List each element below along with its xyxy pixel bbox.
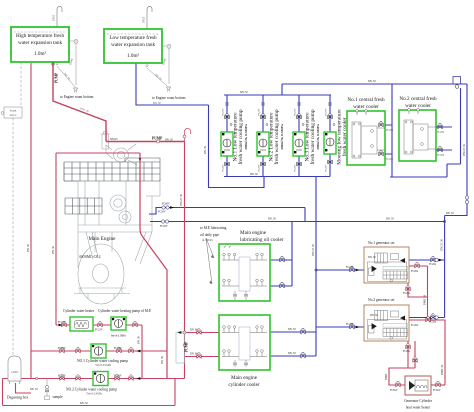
svg-text:device: device [10,114,18,117]
wire: lube cooler collector [291,222,293,287]
svg-text:FC25V: FC25V [58,375,66,378]
svg-text:to Engine room bottom: to Engine room bottom [60,95,94,99]
svg-text:DN125. 50: DN125. 50 [180,194,183,206]
svg-text:200m³/h, 0.3MPa: 200m³/h, 0.3MPa [244,124,248,150]
No.1 LT cooling pump [221,132,233,156]
svg-text:Main Engine: Main Engine [89,236,117,242]
wire: LT distribution riser [315,177,317,357]
wire: genset2 bottom leg left [407,341,409,368]
No.1 generator set [364,241,409,283]
svg-text:FC200: FC200 [386,129,394,132]
wire: engine outlet line lower to genset supply [150,221,445,223]
wire: cooler2 right drop [460,88,462,164]
svg-text:Alarm: Alarm [10,110,17,113]
vertical pump labels [233,109,349,165]
svg-text:FC26x: FC26x [429,321,437,324]
No.2 central fresh water cooler [399,95,452,161]
svg-text:FC26x: FC26x [403,350,411,353]
wire: bus step up [281,84,283,95]
wire: heater row [56,324,142,326]
Mooring LT cooler unit [324,132,336,154]
svg-text:PUMP: PUMP [185,341,189,352]
tiny DN labels [27,72,466,405]
wire: no1 pump branch [226,95,228,177]
wire: lube cooler outlet bottom [270,285,292,287]
NO.1 cylinder water cooling pump [77,344,128,367]
svg-text:FC23V: FC23V [58,347,66,350]
svg-text:1.00m³: 1.00m³ [11,371,19,374]
svg-text:FC22V: FC22V [95,329,103,332]
svg-text:DN. 50: DN. 50 [27,243,30,251]
svg-text:DN. 50: DN. 50 [250,173,258,176]
svg-text:DN. 50: DN. 50 [80,402,88,405]
No.2 generator set [364,298,409,341]
svg-text:No.2 generator set: No.2 generator set [368,298,394,302]
wire: degassing tank U loop [16,383,32,393]
air cooler grid (scavenge) [64,158,160,181]
svg-text:DN. 50: DN. 50 [153,102,161,105]
lower small grid [65,198,102,214]
wire: cooler2 drain leg [447,164,461,177]
svg-text:1.0m³: 1.0m³ [127,53,140,59]
wire: heater return drop [141,325,143,379]
turbocharger [114,148,129,162]
wire: cyl cooler feed bottom [185,356,220,358]
svg-text:DN. 50: DN. 50 [386,218,394,221]
svg-text:fresh water cooling pump: fresh water cooling pump [309,109,316,165]
wire: HT tank vent pipe with gooseneck [57,7,62,28]
wire: degassing bottom row [3,405,176,407]
svg-text:FO20V: FO20V [162,203,170,206]
No.3 LT cooling pump [293,132,305,156]
svg-text:FC20V: FC20V [160,225,168,228]
wire: upper distribution bus [282,83,467,85]
engine outline [78,178,160,268]
wire: HT tank left drop [30,63,32,379]
svg-text:DN65. 50: DN65. 50 [424,294,427,305]
wire: HT tank drain valve line [69,41,76,85]
Cylinder water heating pump of M.E [98,309,152,330]
wire: mooring cooler branch [329,95,331,177]
svg-text:fresh water cooling pump: fresh water cooling pump [237,109,244,165]
wire: genset jacket riser [427,266,429,320]
header distributor rect [176,332,185,363]
svg-text:DN. 50: DN. 50 [288,328,296,331]
svg-text:NO.2 Cylinder water cooling pu: NO.2 Cylinder water cooling pump [66,388,117,392]
wire: genset2 jacket out [409,320,445,322]
NO.2 cylinder water cooling pump [66,372,117,396]
svg-text:FC65V: FC65V [390,389,398,392]
funnel under HT overflow [74,88,78,93]
svg-text:DN. 50: DN. 50 [204,145,207,153]
wire: engine inlet drop left [55,153,57,325]
HT expansion tank [11,27,69,62]
wire: HT tank overflow diagonal to funnel [57,66,75,87]
wire: right edge drop [445,84,467,216]
svg-text:FC26V: FC26V [114,375,122,378]
svg-text:DN. 50: DN. 50 [268,218,276,221]
svg-text:DN65: DN65 [385,373,388,380]
svg-text:FC22V: FC22V [222,164,225,171]
svg-text:70m³/h 0.4MPa: 70m³/h 0.4MPa [86,393,103,396]
svg-text:FC21V: FC21V [222,108,225,115]
svg-text:Degassing box: Degassing box [7,396,28,400]
flow arrows [59,324,63,327]
wire: pump discharge bus [224,94,331,96]
svg-text:water cooler: water cooler [353,104,379,110]
svg-text:DN. 90: DN. 90 [190,353,198,356]
wire: genset1 bottom leg [408,283,428,297]
svg-text:DN25: DN25 [143,16,146,23]
svg-text:DN. 90: DN. 90 [190,329,198,332]
wire: engine outlet line upper [149,208,305,222]
pump fittings: valves above/below each pump [225,103,335,166]
svg-text:to M.E lubricating: to M.E lubricating [200,226,227,230]
svg-text:200m³/h, 0.3MPa: 200m³/h, 0.3MPa [280,124,284,150]
wire: LT tank vent pipe with gooseneck [147,7,152,30]
svg-text:FC20V: FC20V [158,211,166,214]
wire: cylinder cooler outlet bottom [270,355,316,357]
wire: no2 pump branch [262,95,264,177]
svg-text:FC24V: FC24V [114,347,122,350]
wire: LT tank overflow diagonal to funnel [147,68,167,86]
svg-text:DN. 50: DN. 50 [240,91,248,94]
svg-text:DN. 50: DN. 50 [52,245,55,253]
wire: genset2 return [409,317,445,319]
svg-text:8m³/h 0.5MPa: 8m³/h 0.5MPa [111,335,127,338]
svg-text:water expansion tank: water expansion tank [111,42,155,48]
wire: cylinder cooler outlet top [270,331,316,333]
svg-text:DN125: DN125 [110,138,118,141]
svg-text:Main engine: Main engine [240,230,267,236]
svg-text:FC22V: FC22V [325,164,328,171]
svg-text:DN. 50: DN. 50 [30,388,38,391]
svg-text:High temperature fresh: High temperature fresh [16,32,65,39]
svg-text:DN125. 50: DN125. 50 [312,244,315,256]
svg-text:FC26x: FC26x [346,266,354,269]
svg-text:DN125. 50: DN125. 50 [441,239,444,251]
valves blue side [301,328,305,333]
svg-text:6S50MC-C8.2: 6S50MC-C8.2 [79,255,100,259]
svg-text:DN65. 50: DN65. 50 [441,364,444,375]
svg-text:NO.1 Cylinder water cooling pu: NO.1 Cylinder water cooling pump [77,359,128,363]
svg-text:oil daily pipe: oil daily pipe [200,233,219,237]
svg-text:FC21V: FC21V [294,108,297,115]
svg-text:70m³/h 0.4MPa: 70m³/h 0.4MPa [95,364,112,367]
flywheel big oval body [78,244,124,304]
svg-text:No.1 generator set: No.1 generator set [368,241,394,245]
svg-text:Cylinder water heating pump of: Cylinder water heating pump of M.E [98,309,152,313]
svg-text:FC21V: FC21V [325,108,328,115]
small circles [110,195,126,211]
wire: cyl cooler feed top [185,332,220,334]
vent loop top right [453,77,461,85]
svg-text:FC65V: FC65V [433,389,441,392]
svg-text:Cylinder water heater: Cylinder water heater [63,309,95,313]
wire: genset2 supply [316,326,364,328]
svg-text:cylinder cooler: cylinder cooler [228,382,260,388]
wire: HT tank drain to engine room bottom [53,62,106,142]
svg-text:DN125. 50: DN125. 50 [463,144,466,156]
wire: lube cooler outlet top [270,259,292,261]
svg-text:water cooler: water cooler [405,103,431,109]
wire: bottom right leg [174,379,176,406]
wire: no3 pump branch [298,95,300,177]
svg-text:No.2 central fresh: No.2 central fresh [399,95,437,102]
svg-text:DN. 50: DN. 50 [370,314,378,317]
Generator cylinder heat water heater [404,376,433,410]
wire: degassing left leg [2,379,4,406]
svg-text:fresh water cooling pump: fresh water cooling pump [273,109,280,165]
svg-text:DN25: DN25 [53,14,56,21]
No.2 LT cooling pump [257,132,269,156]
wire: genset1 return [409,259,445,261]
wire: heater supply down [444,322,446,386]
wire: engine inlet header [56,152,140,154]
svg-text:FC26x: FC26x [411,270,419,273]
svg-text:1.0m³: 1.0m³ [34,51,47,57]
svg-text:FC26x: FC26x [403,292,411,295]
svg-text:No.1 central fresh: No.1 central fresh [347,96,385,103]
wire: genset2 bottom leg right [414,341,416,368]
valves red side [62,321,66,326]
svg-text:DN. 50: DN. 50 [368,256,376,259]
wire: engine jacket path through engine and down [140,153,167,379]
svg-text:DN. 50: DN. 50 [161,355,164,363]
No.1 central fresh water cooler [347,96,394,165]
svg-text:FC22V: FC22V [258,164,261,171]
svg-text:to Engine room bottom: to Engine room bottom [152,96,186,100]
wire: LT tank drain valve line [162,46,169,84]
Cylinder water heater [63,309,95,331]
svg-text:FC26x: FC26x [429,263,437,266]
svg-text:PUMP: PUMP [152,137,163,141]
wire: dashed line alarm device to degassing box [12,118,14,355]
svg-text:DN. 50: DN. 50 [368,80,376,83]
LT expansion tank [104,29,162,63]
svg-text:PUMP: PUMP [55,72,59,83]
svg-text:heat water heater: heat water heater [406,406,431,410]
wire: cooler1 right drop [391,84,393,177]
svg-text:200m³/h, 0.3MPa: 200m³/h, 0.3MPa [316,124,320,150]
svg-text:FC22V: FC22V [294,164,297,171]
wire: LT tank drain down [136,63,209,105]
wire: gooseneck vent on header [185,129,191,142]
svg-text:FC200: FC200 [437,131,445,134]
wire: cooler bottom bus [390,176,447,178]
svg-text:FC200: FC200 [386,158,394,161]
svg-text:water expansion tank: water expansion tank [18,40,62,46]
wire: genset1 supply [316,269,364,271]
funnel under LT overflow [167,87,171,92]
svg-text:FC26x: FC26x [346,323,354,326]
wire: no1 cyl pump row [31,350,167,352]
svg-text:FC21V: FC21V [258,108,261,115]
svg-text:Low temperature fresh: Low temperature fresh [109,34,157,41]
svg-text:DN. 50: DN. 50 [165,139,173,142]
wire: HT top header [106,141,185,143]
wire: heater right inlet [431,384,445,386]
wire: genset1 jacket out [409,265,428,267]
svg-text:FC200: FC200 [437,154,445,157]
fitting circle on header [156,140,159,143]
wire: dashed line HT tank bottom down [20,62,22,117]
svg-text:sample: sample [53,395,64,399]
wire: genset return riser [444,216,446,318]
wire: LT feed down to suction jog [209,105,265,188]
svg-text:DN. 50: DN. 50 [446,212,454,215]
wire: heater left outlet [389,368,415,385]
degassing box [7,356,28,400]
svg-text:Main engine: Main engine [231,375,258,381]
wire: pump suction bus [224,176,330,178]
svg-text:DN. 50: DN. 50 [138,335,141,343]
svg-text:FC26x: FC26x [411,324,419,327]
svg-text:lubricating oil cooler: lubricating oil cooler [240,237,284,243]
svg-text:Generator Cylinder: Generator Cylinder [404,399,433,403]
svg-text:FC21V: FC21V [58,321,66,324]
arrow into engine jacket [139,158,142,162]
wire: no2 cyl pump row [3,378,185,380]
thermometer fittings on engine outlet lines [161,196,468,319]
svg-text:DN. 50: DN. 50 [288,352,296,355]
sample point [36,377,64,399]
wire: HT main riser [184,142,186,379]
